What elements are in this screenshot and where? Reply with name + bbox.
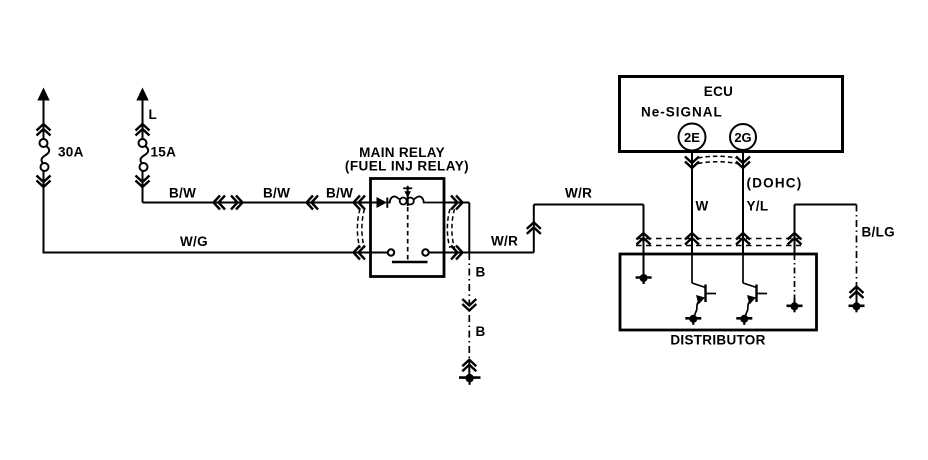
ECU box: [620, 77, 843, 152]
svg-text:L: L: [149, 107, 158, 122]
label W/R 1: [491, 234, 518, 249]
ground distributor pin4: [787, 302, 803, 312]
relay box: [371, 179, 445, 277]
svg-text:2E: 2E: [684, 130, 700, 145]
label 30A: [58, 145, 84, 160]
ground B wire: [459, 374, 481, 385]
wire relay top out: [444, 202, 469, 204]
svg-text:W/R: W/R: [565, 186, 592, 201]
fuse F1 30A body: [40, 139, 50, 171]
svg-text:B: B: [476, 265, 486, 280]
wire B/LG top horizontal: [795, 204, 857, 206]
svg-text:B/W: B/W: [263, 186, 290, 201]
connector chevron distributor pin3: [736, 233, 750, 245]
label (DOHC): [747, 176, 803, 191]
svg-text:Ne-SIGNAL: Ne-SIGNAL: [641, 105, 723, 120]
connector chevron on B/W: [307, 196, 319, 210]
wire relay feed-through vertical: [468, 203, 470, 254]
svg-text:(FUEL INJ RELAY): (FUEL INJ RELAY): [345, 159, 469, 174]
ground transistor Q2: [736, 315, 752, 325]
wire W/R top horizontal: [534, 204, 644, 206]
relay armature: [403, 186, 412, 261]
svg-text:15A: 15A: [151, 145, 177, 160]
svg-text:DISTRIBUTOR: DISTRIBUTOR: [670, 333, 765, 348]
label B/W 3: [326, 186, 353, 201]
connector chevron on B down: [462, 299, 476, 311]
wire relay bottom out: [444, 252, 534, 254]
connector dashed arcs below ECU: [698, 156, 737, 163]
label W: [696, 199, 709, 214]
label B 2: [476, 324, 486, 339]
wire pin1 to ground: [643, 254, 645, 274]
connector chevron distributor pin1: [637, 233, 651, 245]
label ECU: [704, 84, 733, 99]
fuse 30A power feed arrow: [37, 88, 49, 101]
wire distributor pin4 riser: [794, 205, 796, 255]
svg-text:B/W: B/W: [169, 186, 196, 201]
connector chevron below fuse 30A: [37, 176, 51, 188]
wire Y/L from 2G: [742, 149, 744, 254]
wire B dash-dot vertical: [468, 253, 470, 378]
wire pin4 dash-dot inside distributor: [794, 254, 796, 306]
connector chevron on B/LG: [850, 287, 864, 299]
connector chevron below fuse 15A: [136, 176, 150, 188]
fuse F2 15A body: [139, 139, 149, 171]
label Ne-SIGNAL: [641, 105, 723, 120]
ground transistor Q1: [685, 315, 701, 325]
label B/LG: [862, 225, 895, 240]
svg-text:B/W: B/W: [326, 186, 353, 201]
wire fuse 15A vertical: [142, 99, 144, 203]
connector dashed arcs relay right: [447, 209, 454, 248]
relay coil: [387, 196, 444, 204]
label Y/L: [747, 199, 769, 214]
connector chevron above fuse 15A: [136, 124, 150, 136]
wire W/G horizontal: [43, 252, 371, 254]
connector chevron on B up: [462, 360, 476, 372]
ECU pin 2G: [730, 124, 756, 150]
connector chevron relay right top: [451, 196, 463, 210]
svg-text:30A: 30A: [58, 145, 84, 160]
svg-text:(DOHC): (DOHC): [747, 176, 803, 191]
svg-text:2G: 2G: [734, 130, 751, 145]
wire W from 2E: [691, 150, 693, 255]
ground B/LG: [849, 302, 865, 312]
svg-text:W/G: W/G: [180, 234, 208, 249]
wire fuse 30A vertical: [43, 99, 45, 253]
svg-text:ECU: ECU: [704, 84, 733, 99]
wire B/W horizontal: [143, 202, 371, 204]
label B/W 2: [263, 186, 290, 201]
relay contacts: [371, 249, 445, 255]
label (FUEL INJ RELAY): [345, 159, 469, 174]
connector chevron on W/R riser: [527, 222, 541, 234]
svg-text:Y/L: Y/L: [747, 199, 769, 214]
label L: [149, 107, 158, 122]
label W/G: [180, 234, 208, 249]
fuse 15A power feed arrow: [136, 88, 148, 101]
relay switch bar: [392, 261, 428, 263]
connector dashed arcs relay left: [357, 209, 364, 248]
wire W/R drop to distributor: [643, 205, 645, 255]
connector chevron at relay pin top: [354, 196, 366, 210]
label W/R 2: [565, 186, 592, 201]
connector chevron below 2G: [736, 157, 750, 169]
transistor Q1: [692, 254, 716, 316]
ECU pin 2E: [679, 124, 706, 151]
wire W/R riser: [533, 205, 535, 253]
label DISTRIBUTOR: [670, 333, 765, 348]
connector chevron relay right bottom: [451, 246, 463, 260]
svg-text:W/R: W/R: [491, 234, 518, 249]
connector chevron distributor pin2: [685, 233, 699, 245]
connector chevron pair on B/W: [214, 196, 243, 210]
distributor box: [620, 254, 817, 330]
label 15A: [151, 145, 177, 160]
label B/W 1: [169, 186, 196, 201]
connector chevron at relay pin bottom: [354, 246, 366, 260]
label B 1: [476, 265, 486, 280]
ground distributor pin1: [636, 274, 652, 284]
connector dashed lines distributor: [636, 239, 801, 246]
label MAIN RELAY: [359, 145, 445, 160]
transistor Q2: [743, 254, 767, 316]
svg-text:B/LG: B/LG: [862, 225, 895, 240]
connector chevron below 2E: [685, 157, 699, 169]
wire B/LG dash-dot drop: [856, 205, 858, 306]
svg-text:W: W: [696, 199, 709, 214]
connector chevron above fuse 30A: [37, 124, 51, 136]
svg-text:B: B: [476, 324, 486, 339]
relay diode: [371, 197, 388, 208]
connector chevron distributor pin4: [788, 233, 802, 245]
